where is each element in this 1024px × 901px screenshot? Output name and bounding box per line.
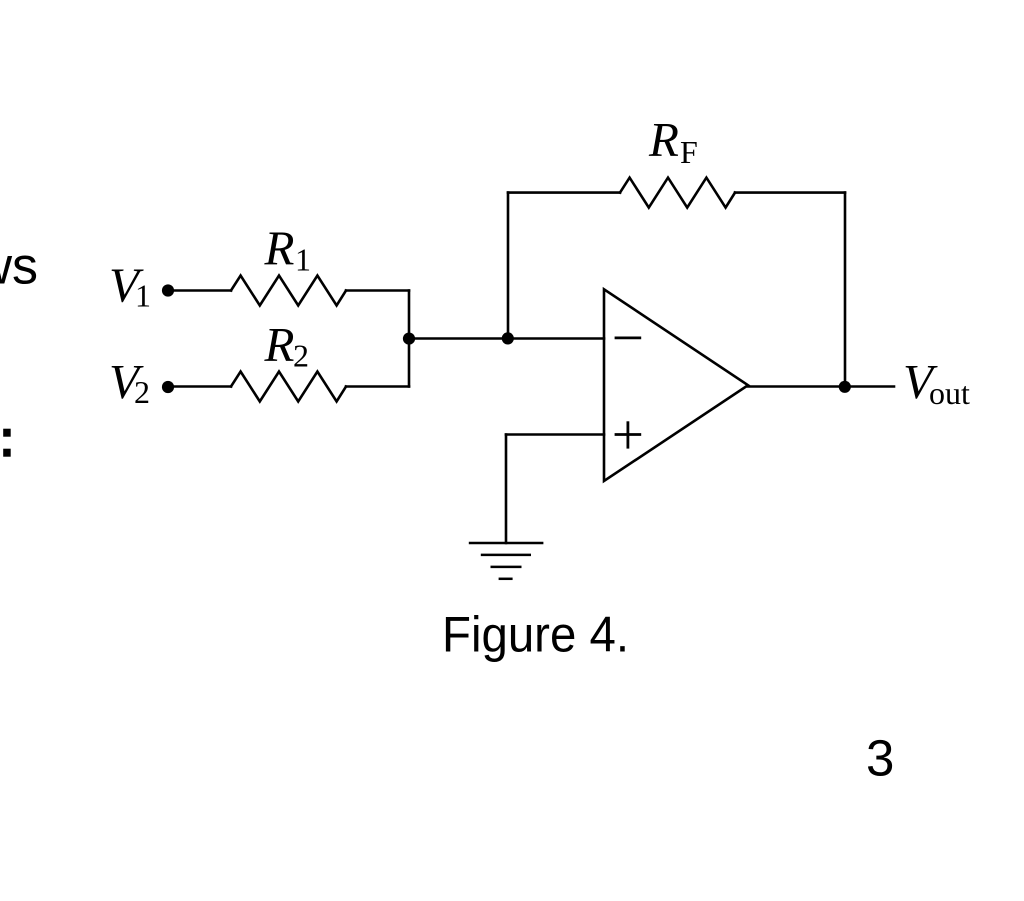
svg-text:R: R xyxy=(264,221,295,276)
resistor RF xyxy=(620,178,735,208)
wire feedback right leg xyxy=(844,193,847,387)
svg-text:out: out xyxy=(929,375,970,411)
node output junction xyxy=(839,381,851,393)
wire output xyxy=(748,385,894,388)
wire feedback top right xyxy=(735,191,845,194)
resistor R1 xyxy=(231,276,346,306)
node V2 terminal xyxy=(162,381,174,393)
truncated left margin colon xyxy=(3,429,11,437)
svg-text:F: F xyxy=(680,134,698,170)
wire feedback top left xyxy=(508,191,620,194)
op-amp U1 xyxy=(604,289,748,481)
wire V1 lead xyxy=(170,289,231,292)
resistor R2 xyxy=(231,372,346,402)
wire feedback left leg xyxy=(507,193,510,339)
wire ground drop xyxy=(505,435,508,544)
svg-text:R: R xyxy=(264,317,295,372)
wire R2 to junction xyxy=(346,385,409,388)
op-amp minus input sign xyxy=(615,336,642,339)
wire junction vertical R1-R2 xyxy=(408,291,411,387)
op-amp plus input sign xyxy=(615,421,642,448)
svg-text:ws: ws xyxy=(0,237,38,295)
node R1-R2 junction xyxy=(403,333,415,345)
svg-text:2: 2 xyxy=(134,374,150,410)
svg-text:1: 1 xyxy=(295,242,311,278)
svg-text:2: 2 xyxy=(293,338,309,374)
ground xyxy=(469,543,544,579)
svg-text:Figure 4.: Figure 4. xyxy=(442,607,629,663)
svg-text:R: R xyxy=(648,112,679,167)
svg-text:3: 3 xyxy=(866,730,894,787)
node V1 terminal xyxy=(162,284,174,296)
node summing junction xyxy=(502,332,514,344)
wire R1 to junction xyxy=(346,289,409,292)
svg-text:1: 1 xyxy=(135,277,151,313)
wire V2 lead xyxy=(170,385,231,388)
wire non-inverting input xyxy=(506,433,604,436)
wire junction to inverting input xyxy=(409,337,604,340)
